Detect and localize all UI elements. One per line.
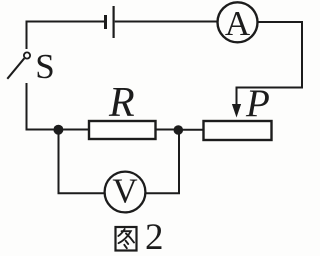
wire top from corner to battery: [26, 21, 105, 23]
svg-text:S: S: [35, 47, 54, 86]
svg-text:V: V: [112, 171, 137, 210]
caption glyph 图 inner strokes: [118, 229, 134, 248]
svg-text:A: A: [225, 4, 251, 43]
wire voltmeter branch left vertical: [59, 130, 105, 194]
wiper arrow shaft: [236, 87, 238, 108]
svg-text:2: 2: [145, 217, 164, 256]
wire battery to ammeter: [115, 21, 218, 23]
battery B positive plate: [113, 6, 115, 38]
junction dot right: [174, 125, 184, 135]
wiper arrowhead: [232, 104, 241, 118]
wire right vertical: [301, 21, 303, 88]
junction dot left: [53, 125, 63, 135]
wire switch to main node: [26, 83, 28, 131]
switch S pivot circle: [24, 52, 30, 58]
wire top-left vertical: [26, 23, 28, 50]
resistor R body: [89, 121, 156, 139]
wire ammeter to right edge: [258, 21, 303, 23]
svg-text:P: P: [245, 82, 270, 125]
voltmeter U2 circle: [105, 172, 146, 213]
wire right dot to rheostat: [178, 129, 203, 131]
battery B negative plate: [104, 15, 107, 29]
wire voltmeter branch right vertical: [145, 131, 179, 193]
wire resistor to right dot: [156, 129, 180, 131]
svg-text:R: R: [108, 80, 135, 126]
ammeter U1 circle: [218, 2, 258, 42]
rheostat P body: [204, 121, 272, 140]
caption glyph 图 outer box: [116, 227, 137, 251]
switch S blade: [7, 58, 24, 79]
wire to wiper: [237, 87, 304, 89]
wire main left to resistor: [26, 129, 89, 131]
